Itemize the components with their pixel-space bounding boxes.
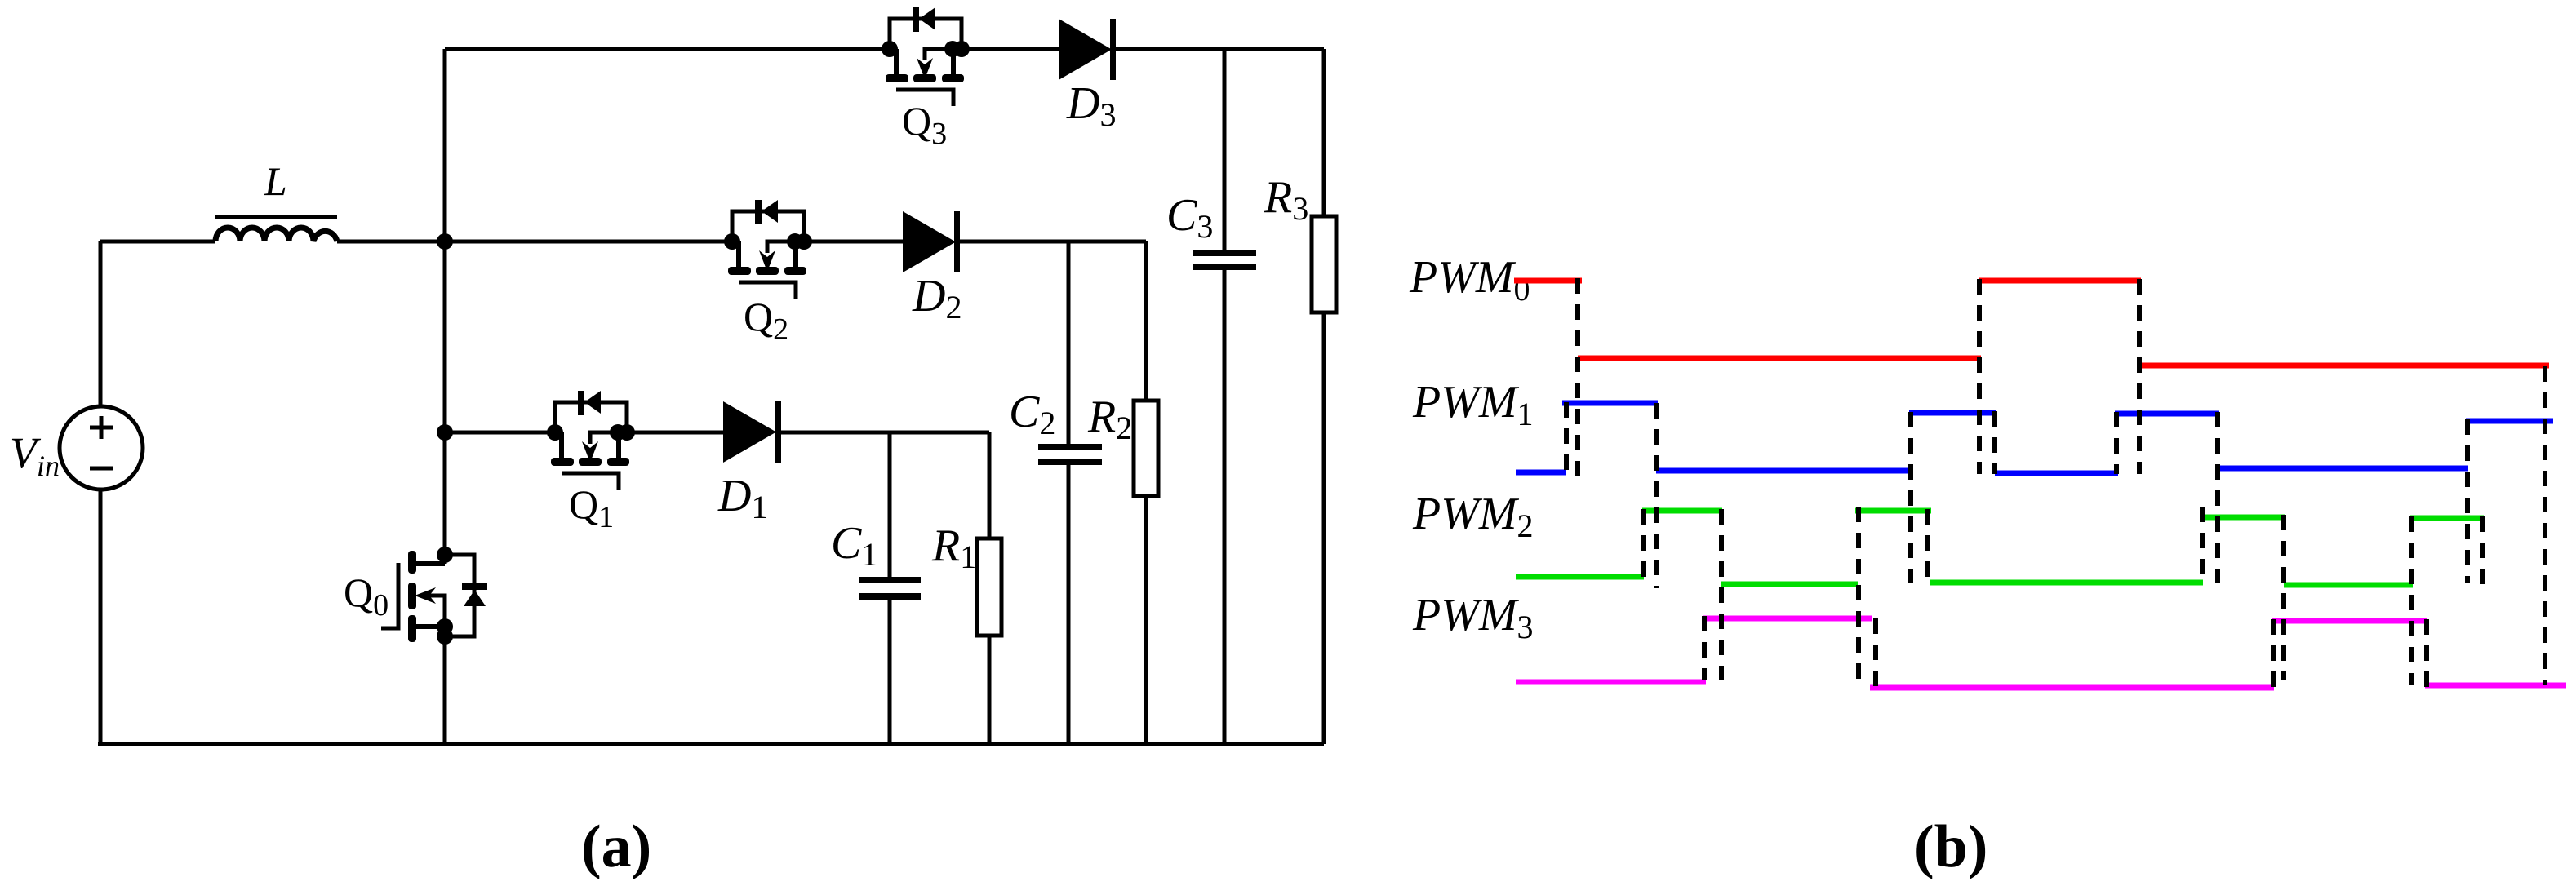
dashed transition edge lines — [1566, 278, 2545, 689]
dashed edge PWM2 fall t9 — [2281, 515, 2286, 680]
dashed edge period end — [2543, 366, 2547, 685]
dashed edge PWM0 fall t7 — [2137, 279, 2142, 474]
dashed edge PWM3 fall t4 — [1873, 618, 1878, 688]
wire left rail top — [99, 241, 103, 406]
PWM2 low segment 4 — [2284, 583, 2413, 588]
wire bottom rail — [98, 742, 1324, 746]
PWM0 high segment 2 — [1979, 278, 2141, 284]
waveform PWM1 — [1516, 403, 2553, 473]
dashed edge PWM1 fall t2 — [1654, 403, 1659, 588]
svg-text:PWM0: PWM0 — [1409, 252, 1530, 308]
waveform PWM2 — [1516, 511, 2484, 585]
wire D2 to R2 corner — [960, 240, 1146, 244]
svg-text:(a): (a) — [581, 813, 651, 880]
wire Q3 to D3 — [962, 47, 1059, 51]
PWM3 low segment 3 — [2425, 683, 2566, 689]
dashed edge PWM1 rise t1 — [1564, 402, 1569, 480]
transistor Q2 — [724, 200, 812, 299]
resistor R2 — [1134, 241, 1158, 744]
PWM0 high segment 1 — [1514, 278, 1582, 284]
capacitor C1 — [859, 432, 921, 744]
wire Q2 to D2 — [804, 240, 903, 244]
PWM2 high segment 3 — [2201, 515, 2285, 521]
PWM0 low segment 1 — [1578, 356, 1981, 361]
dashed edge PWM3 rise t9 — [2271, 619, 2276, 688]
PWM2 low segment 3 — [1930, 580, 2203, 586]
wire node to Q2 — [445, 240, 732, 244]
PWM2 low segment 1 — [1516, 574, 1644, 580]
dashed edge PWM2 rise t4 — [1856, 507, 1861, 680]
diode D1 — [723, 401, 781, 463]
wire Q0 source to bottom — [443, 636, 447, 744]
transistor Q1 — [547, 391, 635, 490]
voltage source Vin — [60, 406, 143, 490]
wire main vertical — [443, 49, 447, 564]
PWM3 high segment 1 — [1703, 616, 1872, 622]
dashed edge PWM2 fall t5 — [1925, 509, 1930, 581]
PWM1 high segment 2 — [1909, 410, 1996, 416]
PWM2 low segment 2 — [1721, 582, 1858, 587]
dashed edge PWM1 rise t5 — [1908, 412, 1913, 583]
dashed edge PWM3 rise t3 — [1702, 616, 1707, 680]
waveform PWM3 — [1516, 618, 2566, 688]
wire node to Q1 — [445, 431, 555, 435]
wire top rail left — [445, 47, 889, 51]
dashed edge PWM3 fall t10 — [2424, 619, 2429, 689]
PWM0 low segment 2 — [2139, 363, 2549, 369]
transistor Q3 — [882, 7, 970, 106]
PWM1 high segment 3 — [2115, 411, 2219, 417]
wire Q1 to D1 — [627, 431, 723, 435]
dashed edge PWM1 rise t7 — [2114, 412, 2119, 474]
wire inductor to node — [337, 240, 445, 244]
PWM1 low segment 3 — [1995, 471, 2118, 476]
diode D2 — [903, 211, 960, 272]
PWM2 high segment 2 — [1855, 508, 1931, 514]
dashed edge PWM1 fall t8 — [2215, 412, 2220, 583]
dashed edge PWM1 fall t6 — [1992, 411, 1997, 474]
PWM3 low segment 2 — [1870, 685, 2274, 691]
PWM1 low segment 1 — [1516, 470, 1566, 476]
svg-text:L: L — [264, 158, 287, 204]
dashed edge PWM2 rise t2 — [1641, 509, 1646, 587]
PWM3 low segment 1 — [1516, 680, 1706, 685]
diode D3 — [1059, 19, 1116, 80]
PWM1 low segment 2 — [1656, 468, 1912, 474]
PWM1 low segment 4 — [2218, 466, 2468, 472]
svg-text:(b): (b) — [1914, 813, 1988, 880]
capacitor C3 — [1193, 49, 1256, 744]
svg-text:PWM3: PWM3 — [1412, 590, 1534, 645]
resistor R1 — [977, 432, 1002, 744]
dashed edge PWM2 fall t11 — [2480, 516, 2485, 585]
PWM1 high segment 4 — [2466, 419, 2553, 424]
PWM1 high segment 1 — [1562, 401, 1658, 406]
PWM2 high segment 4 — [2410, 516, 2484, 521]
dashed edge PWM2 rise t8 — [2200, 507, 2205, 585]
inductor L — [215, 215, 337, 241]
dashed edge PWM0 fall t1 — [1575, 278, 1580, 480]
capacitor C2 — [1038, 241, 1102, 744]
waveform PWM0 — [1514, 281, 2549, 365]
wire left rail bottom — [99, 490, 103, 744]
dashed edge PWM0 rise t6 — [1977, 279, 1982, 474]
dashed edge PWM1 rise t11 — [2465, 419, 2470, 583]
svg-text:PWM2: PWM2 — [1412, 489, 1534, 544]
wire D3 to corner — [1116, 47, 1324, 51]
node inductor junction — [437, 233, 453, 250]
PWM2 high segment 1 — [1642, 508, 1722, 514]
node Q1 branch — [437, 424, 453, 441]
wire D1 to R1 corner — [781, 431, 989, 435]
transistor Q0 — [381, 547, 487, 645]
wire inductor left — [100, 240, 215, 244]
resistor R3 — [1312, 49, 1336, 744]
dashed edge PWM2 fall t3 — [1719, 509, 1724, 680]
dashed edge PWM2 rise t10 — [2409, 516, 2414, 685]
PWM3 high segment 2 — [2272, 618, 2427, 624]
svg-text:PWM1: PWM1 — [1412, 377, 1534, 432]
